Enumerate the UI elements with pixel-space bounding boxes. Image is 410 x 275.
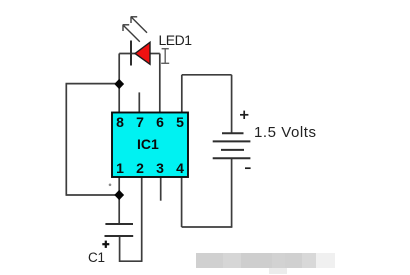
- wire LED cathode / pin 8 vertical: [118, 54, 120, 114]
- pin 8: [113, 114, 127, 130]
- pin 3: [153, 160, 167, 176]
- label 1.5 Volts: [254, 124, 317, 141]
- LED light arrow 1: [123, 25, 140, 42]
- wire pin 4 vertical: [181, 177, 183, 228]
- battery B1 plates: [213, 133, 251, 158]
- wire battery minus vertical: [231, 158, 233, 227]
- IC1 body: [112, 113, 188, 178]
- wire LED left horizontal: [119, 53, 135, 55]
- wire battery plus loop horizontal: [182, 74, 232, 76]
- wire bottom horizontal battery to pin 4: [182, 226, 233, 228]
- wire pin 2 vertical: [141, 177, 143, 262]
- capacitor C1 plus sign: [102, 241, 109, 248]
- LED light arrow 2: [131, 17, 147, 33]
- battery plus sign: [240, 111, 248, 119]
- pin 6: [153, 114, 167, 130]
- pin 5: [173, 114, 187, 130]
- wire LED anode horizontal: [150, 53, 160, 55]
- text cursor I-beam: [161, 49, 169, 64]
- wire C1 bottom U left vertical: [119, 236, 121, 262]
- wire pin 1 vertical to C1: [118, 177, 120, 225]
- label IC1: [137, 136, 159, 152]
- label LED1: [159, 32, 192, 48]
- wire top-left horizontal to node: [66, 83, 120, 85]
- node B junction dot bottom: [114, 190, 124, 200]
- pin 1: [113, 160, 127, 176]
- watermark grey bar: [196, 253, 224, 269]
- wire battery plus vertical: [231, 75, 233, 133]
- wire pin 3 stub: [160, 177, 162, 201]
- LED1 red triangle: [135, 42, 150, 64]
- label C1: [88, 250, 105, 265]
- stray grey dot: [109, 184, 112, 187]
- wire pin 6 vertical: [159, 54, 161, 114]
- battery minus sign: [245, 167, 251, 169]
- wire C1 bottom U horizontal: [120, 260, 143, 262]
- capacitor C1 plates: [105, 224, 134, 236]
- LED1 cathode bar: [130, 41, 132, 66]
- pin 4: [173, 160, 187, 176]
- wire pin 7 stub: [138, 92, 140, 113]
- wire pin 5 vertical: [181, 75, 183, 113]
- wire left rail vertical: [65, 84, 67, 195]
- wire bottom-left horizontal to node: [66, 194, 120, 196]
- pin 2: [133, 160, 147, 176]
- node A junction dot top: [114, 79, 124, 89]
- pin 7: [133, 114, 147, 130]
